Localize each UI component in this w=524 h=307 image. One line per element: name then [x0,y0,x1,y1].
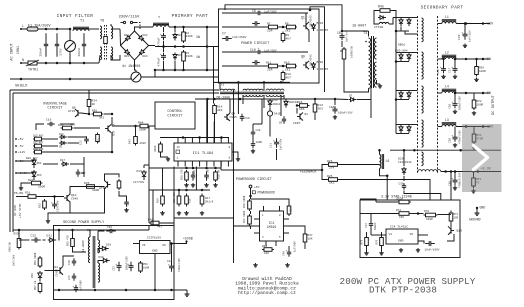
ground C21 [251,149,255,153]
node -12V [482,125,485,128]
ground R52 [472,111,476,115]
transistor Q5 [105,125,111,133]
diode D9 [59,141,67,145]
svg-text:T6: T6 [100,20,104,24]
wire t2 area1 [262,98,270,100]
transformer T3 secondary [374,38,376,59]
svg-text:R70: R70 [424,210,429,213]
svg-text:100R: 100R [38,186,45,189]
transformer T3 secondary2 [374,62,376,87]
svg-text:C1?/50V: C1?/50V [133,180,145,184]
wire shield drop [130,77,132,79]
wire ov q6 base [60,123,74,125]
wire ov r30 r [74,127,100,129]
wire crossing1 [174,217,234,219]
wire c10 left [222,51,256,53]
wire c33 up [370,214,372,221]
junction L1 out [465,22,468,25]
svg-text:D41E: D41E [274,113,281,116]
svg-text:CIRCUIT: CIRCUIT [47,107,63,111]
resistor R76 [380,236,384,248]
wire stab left [360,213,367,215]
T6b core b [94,236,96,288]
wire ov v2 [88,109,90,115]
junction snub [341,30,344,33]
junction pb2 [174,69,177,72]
svg-text:IC4 TL431C: IC4 TL431C [390,226,408,229]
wire T1 to T6 top [89,28,99,30]
resistor R48 [214,170,218,182]
resistor R42 4K7 [149,221,161,225]
svg-text:R75: R75 [361,239,364,244]
wire ic1 gnd r [232,152,238,157]
junction primary top [182,26,185,29]
wire L6 top [379,150,381,154]
bus v 149b [148,226,150,231]
ground C27 [453,75,457,79]
wire ov h2 [104,113,112,115]
capacitor C25 [127,262,133,272]
ground bl C12 [204,183,209,187]
wire c20 up [252,124,254,130]
capacitor C15 100uF/16V [331,106,337,114]
wire T7 right [169,26,219,28]
secondary dash right [437,16,439,174]
svg-text:C41: C41 [68,275,71,280]
wire d31 out [58,230,61,240]
junction 150 b [459,149,462,152]
wire pg bot [250,226,252,229]
junction T2 c [280,81,283,84]
wire T2 sec out1 [242,95,244,104]
svg-text:MPD2: MPD2 [317,61,324,64]
transistor Q4 C945 [224,113,230,121]
junction primary top2 [206,26,209,29]
resistor R27 [33,137,43,141]
junction psu2 t0 [18,229,21,232]
svg-text:78L05: 78L05 [152,237,161,240]
switch SW1 lever [121,22,124,24]
wire c9 left [222,12,256,14]
resistor R1 [104,37,108,44]
capacitor C1 [44,33,48,56]
IC U2 LM393 body [260,211,284,241]
svg-text:3K3: 3K3 [99,117,104,120]
svg-text:D29: D29 [398,158,404,161]
IC1 pin1 mark [176,150,180,154]
junction c18 [53,195,56,198]
diode D16 1N4148 [284,99,288,107]
svg-text:ZD9: ZD9 [31,273,34,278]
svg-text:POWERGOOD: POWERGOOD [258,191,275,195]
switch SW1 lever b [133,22,136,24]
inductor L4 [442,89,456,93]
svg-text:SCR: SCR [113,131,116,136]
svg-text:2nF/1kV: 2nF/1kV [345,30,349,42]
wire d7 to t3 [357,99,371,101]
svg-text:18K: 18K [189,198,192,203]
svg-text:R39: R39 [262,245,267,248]
svg-text:4K7: 4K7 [286,76,292,79]
ground R50 [474,78,479,82]
zener ZD3 [32,170,36,180]
bus v 174 [173,167,175,226]
wire T3 top [368,31,370,37]
ground C15 [333,115,337,119]
wire pg left bus [233,221,235,263]
wire switch drop [136,23,140,29]
resistor R44 100K [138,124,150,128]
wire rect join t5 [396,52,409,54]
junction rect c [395,98,398,101]
wire gnd c18 [48,213,55,219]
TH2 slash [133,74,139,80]
svg-text:C39: C39 [458,34,461,40]
svg-text:22R: 22R [267,69,273,72]
ground stab2 [379,251,384,255]
wire pg mid [250,211,252,214]
capacitor C37 10nF [425,241,435,246]
wire r13 up [314,99,316,102]
svg-text:-5V: -5V [18,145,24,148]
wire q1 emit [308,30,310,42]
svg-text:1W: 1W [196,35,200,39]
junction bot2 [56,62,59,65]
wire mesh ctl1 [269,108,271,112]
junction L6 top [378,149,381,152]
svg-text:INPUT FILTER: INPUT FILTER [57,14,94,19]
transformer T2 primary winding b [243,89,263,91]
svg-text:+: + [160,33,162,36]
wire L2 out [456,58,490,60]
bus h mid [220,161,222,170]
capacitor C02 470uF [160,33,166,41]
wire rect join b5 [396,61,409,63]
svg-text:L: L [22,24,24,28]
svg-text:R57 1K: R57 1K [34,280,37,290]
svg-text:VO: VO [162,244,166,247]
wire t6 d28 [98,249,101,253]
secondary winding w5 [422,152,424,166]
svg-text:ZD3: ZD3 [37,174,42,177]
wire t6 d30 [98,261,102,264]
svg-text:N: N [22,58,24,62]
svg-text:+: + [115,263,117,266]
svg-text:R41 100K: R41 100K [243,210,246,223]
svg-text:D30: D30 [99,256,104,259]
inductor L3 [442,123,456,127]
wire top rail [21,28,71,30]
svg-text:+: + [51,201,53,204]
svg-text:Q3: Q3 [305,113,309,116]
svg-text:+12V: +12V [485,23,494,27]
wire T2 sec out2 [263,95,265,108]
resistor R31 [27,195,38,199]
wire bottom rail [21,62,99,64]
junction ic1 a [182,136,185,139]
wire r35 r [96,186,98,188]
resistor R57 1K [38,282,42,294]
wire c30 mesh [404,191,441,201]
svg-text:18-0007: 18-0007 [352,25,366,29]
resistor R30 4K7 [61,126,74,130]
resistor R72 15K [397,212,411,216]
wire c33 mesh [367,213,381,215]
ground main [475,211,480,215]
svg-text:DTK PTP-2038: DTK PTP-2038 [369,285,437,296]
wire r25 out [340,180,431,201]
wire t6 sec1 up [97,231,99,240]
resistor R56 [38,256,42,268]
svg-text:9V RUN: 9V RUN [14,205,17,216]
svg-text:C32: C32 [31,235,37,238]
wire r26 out [340,164,380,166]
wire ic1 p2 [213,122,215,138]
junction ctl1 [206,98,209,101]
wire bulk mid [163,41,165,52]
junction bl4 [214,167,217,170]
choke T6 left winding [100,26,102,39]
choke T7 [153,23,169,27]
svg-text:V1: V1 [389,233,393,236]
svg-text:GND: GND [398,240,404,243]
wire q13 out [447,234,454,241]
svg-text:470uF/16V: 470uF/16V [177,258,181,272]
junction r43 [134,125,137,128]
wire rect vbus [395,18,397,134]
svg-text:THTR1: THTR1 [28,69,38,73]
capacitor C22 [191,171,195,181]
junction 150 a [413,149,416,152]
svg-text:R8: R8 [340,50,344,53]
resistor R39 10K [262,248,274,252]
transistor Q9 2SC4242 [303,61,309,69]
wire r55 dn [73,249,87,253]
wire c18 up [54,197,56,202]
wire feedback [232,169,322,171]
terminal L [20,28,22,30]
svg-text:+: + [160,53,162,56]
junction bot4 [69,62,72,65]
svg-text:Q9: Q9 [301,55,305,59]
node ov +5V [15,138,17,140]
wire vertical bus 207 [206,27,208,70]
wire q4 up [229,99,231,113]
wire r53 up [473,172,475,176]
junction D29 top [403,149,406,152]
IC1 top pin 5 [206,138,208,144]
svg-text:D7: D7 [349,95,353,98]
wire fb dn [322,170,327,180]
resistor R77 D63A [397,200,411,204]
ground bl R48 [213,183,218,187]
resistor R9 4K7 [281,32,285,43]
svg-text:+5V STOP: +5V STOP [19,203,22,218]
capacitor C32 2nF/1kV [31,238,41,243]
overlay chevron [474,146,488,170]
diode D10 [59,135,67,139]
rectifier D20 b [407,18,411,26]
wire ov left [9,90,11,232]
svg-text:R22: R22 [28,179,34,182]
IC1 bottom pin 10 [184,161,186,167]
capacitor C5 [252,21,260,26]
inductor L6 winding [380,155,381,169]
IC1 bottom pin 11 [191,161,193,167]
wire zd1 left [16,160,34,162]
junction bl3 [205,167,208,170]
wire r37 dn [304,244,306,249]
secondary dash left [417,16,419,174]
wire T2 sec out3 [280,95,282,116]
wire L4 out [456,92,490,94]
junction 310 [309,9,312,12]
wire r33 up [18,230,20,237]
diode D03 [123,48,131,56]
junction rect b [395,60,398,63]
capacitor C40 [72,258,76,266]
wire D5 top [174,27,176,32]
svg-text:L2: L2 [445,51,449,55]
inductor L5 coupled winding [418,170,441,172]
wire zd1 v [33,158,35,161]
node +3.3V [477,170,480,173]
resistor R51 [472,132,476,144]
wire r35 l [85,186,105,188]
svg-text:POWER CIRCUIT: POWER CIRCUIT [241,42,270,46]
node ov -5V [15,145,17,147]
svg-text:T: T [158,17,160,21]
transistor Q1 2SC4242 [303,22,309,30]
bus center v2 [143,165,145,168]
control circuit box [155,102,195,129]
svg-text:R35: R35 [84,182,90,185]
IC1 bottom pin 14 [213,161,215,167]
wire c15 up [334,99,336,105]
wire r76 up [381,232,383,236]
svg-text:+12V: +12V [18,151,25,154]
wire ctl top [195,98,262,100]
capacitor C16 [47,122,55,126]
svg-text:1uF/50V: 1uF/50V [293,241,297,252]
svg-text:Q13: Q13 [457,230,463,233]
wire T3 down [370,88,372,118]
wire c37 [418,241,424,244]
wire psON [38,196,65,198]
wire ov mesh1 [43,138,58,140]
junction ov1 [88,113,91,116]
diode D30 [101,258,109,262]
wire T6 lower right [111,55,120,60]
wire r33 c32 [19,239,30,241]
svg-text:C16: C16 [46,119,52,122]
wire vertical bus 213 [213,47,215,104]
T3 dot mark [365,41,367,43]
svg-text:SECONDARY PART: SECONDARY PART [421,6,464,11]
wire stab top [376,201,397,203]
junction ml1 [178,189,181,192]
wire r72 r70 [411,213,424,215]
zener ZD1 [32,158,36,168]
svg-text:T3: T3 [363,32,367,36]
wire r13 down [314,114,316,120]
node ov +12V [15,151,17,153]
resistor R37 10K [303,232,307,244]
wire left bus84 [83,157,85,177]
node +5V pg [249,185,252,188]
transistor Q6 A733 [75,109,81,117]
ground psu2 [185,292,190,296]
junction bot3 [83,62,86,65]
wire 240 down [237,91,239,114]
wire c26 up [443,59,445,66]
IC2 pin r2 [284,225,290,227]
diode D14 1N4148 [268,99,272,107]
capacitor C4 [252,60,260,65]
node -5V [482,92,485,95]
svg-text:MPD1: MPD1 [317,22,324,25]
wire r22 left [21,183,30,186]
resistor R47 2K1 [200,194,204,207]
svg-text:+: + [258,47,260,50]
node +5V left [15,160,17,162]
svg-text:+: + [258,8,260,11]
ground R53 [471,189,476,193]
wire ctl to d7 [335,98,348,101]
junction bl1 [185,167,188,170]
capacitor C30 [402,183,406,190]
svg-text:+: + [461,31,463,34]
secondary winding w1 [422,18,424,42]
svg-text:C33: C33 [365,223,368,228]
svg-text:C10: C10 [250,48,256,52]
wire c27 up [454,59,456,66]
wire r14 down [214,116,216,144]
resistor R40 pg [248,199,252,211]
wire R45 right [392,11,396,18]
wire d15 stub [144,164,149,166]
junction stab sense [450,170,453,173]
svg-text:220nF: 220nF [78,47,81,56]
resistor R18 [185,170,189,182]
wire 207 down [207,99,209,143]
svg-text:10K: 10K [308,237,313,240]
capacitor C23 [115,262,121,272]
wire L2 in [438,58,442,60]
svg-text:330K: 330K [186,35,193,38]
svg-text:2xFR155: 2xFR155 [317,29,329,32]
wire bridge right [149,45,156,47]
ground pg2 [285,263,290,267]
ground C39 [463,44,467,48]
resistor R7 22R [267,25,279,29]
wire c6-r8 [341,41,343,47]
svg-text:R38: R38 [290,207,293,212]
IC2 pin b2 [275,241,277,246]
resistor R50 100R [475,65,479,77]
svg-text:18-0005: 18-0005 [82,240,85,252]
svg-text:C38: C38 [449,138,452,143]
wire fb up [322,165,327,171]
transistor Q13 [448,226,454,234]
svg-text:R36: R36 [92,110,97,113]
IC1 bottom pin 9 [177,161,179,167]
resistor R33b [96,133,100,144]
bridge frame [121,31,149,60]
ground R22 [19,186,23,190]
transistor Q10 C945 [64,194,70,202]
varistor VAR1 [65,41,76,52]
